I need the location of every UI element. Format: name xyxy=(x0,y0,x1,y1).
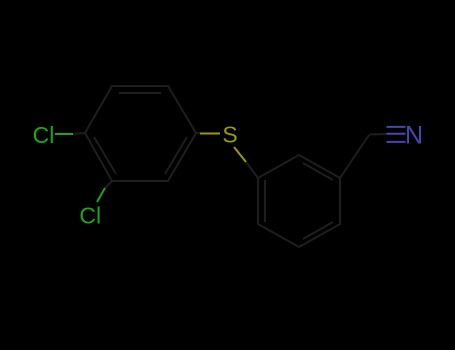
nitrile triple bond (blue half) xyxy=(387,127,406,142)
svg-text:Cl: Cl xyxy=(79,203,101,229)
svg-text:S: S xyxy=(222,122,237,148)
wire nitrile C centre lead xyxy=(369,133,387,136)
wire C-CN bond xyxy=(340,135,369,178)
svg-text:Cl: Cl xyxy=(33,122,55,148)
bond S right half (olive) xyxy=(234,147,246,162)
wire ring B inner double bond left xyxy=(264,180,266,222)
bond Cl2 half (green) xyxy=(97,188,105,202)
benzene ring B xyxy=(258,134,387,247)
wire ring A outline xyxy=(85,86,196,181)
wire ring B inner double bond top-right xyxy=(303,163,333,180)
svg-text:N: N xyxy=(405,122,423,150)
wire S-C bond carbon half (ring B side) xyxy=(246,162,258,178)
wire C-Cl1 bond carbon half xyxy=(73,133,85,134)
wire C-Cl2 bond carbon half xyxy=(105,181,112,188)
wire ring A inner double bond top xyxy=(119,92,161,94)
bond S left half (olive) xyxy=(200,133,220,135)
bond Cl1 half (green) xyxy=(55,133,73,135)
wire ring B outline xyxy=(258,155,340,247)
wire ring A inner double bond lower-right xyxy=(165,137,187,174)
wire C-S bond carbon half (ring A side) xyxy=(196,132,200,134)
wire ring A inner double bond lower-left xyxy=(94,137,116,174)
wire ring B inner double bond right xyxy=(303,222,333,239)
benzene ring A (3,4-dichlorophenyl) xyxy=(73,86,258,188)
